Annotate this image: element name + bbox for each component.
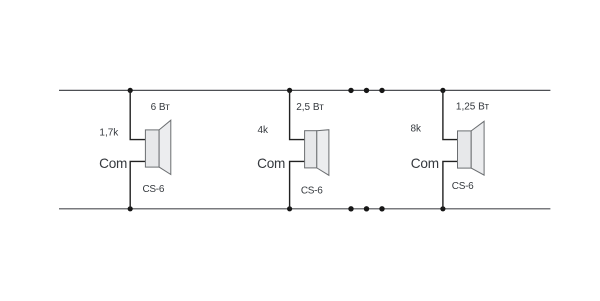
node ellipsis dots top rail bbox=[348, 88, 384, 93]
speaker LS3 body bbox=[458, 131, 472, 168]
node junction top 1 bbox=[128, 88, 133, 93]
svg-text:6 Вт: 6 Вт bbox=[151, 102, 171, 113]
svg-text:Com: Com bbox=[411, 156, 439, 171]
svg-text:Com: Com bbox=[99, 156, 127, 171]
wire branch 3 lower bbox=[443, 161, 458, 208]
wire branch 3 upper bbox=[443, 90, 458, 139]
svg-text:CS-6: CS-6 bbox=[301, 186, 323, 197]
wire branch 2 upper bbox=[290, 90, 305, 139]
svg-text:1,25 Вт: 1,25 Вт bbox=[456, 101, 490, 112]
speaker LS2 cone bbox=[317, 130, 329, 176]
node junction top 2 bbox=[287, 88, 292, 93]
svg-text:1,7k: 1,7k bbox=[99, 128, 119, 139]
node junction top 3 bbox=[440, 88, 445, 93]
node junction bottom 1 bbox=[128, 206, 133, 211]
wire branch 1 upper bbox=[130, 90, 145, 139]
node ellipsis dots bottom rail bbox=[348, 206, 384, 211]
speaker LS2 body bbox=[305, 131, 317, 168]
speaker LS1 cone bbox=[159, 120, 171, 174]
svg-text:8k: 8k bbox=[410, 124, 422, 135]
svg-text:CS-6: CS-6 bbox=[452, 181, 474, 192]
svg-text:Com: Com bbox=[257, 156, 285, 171]
speaker LS3 cone bbox=[471, 121, 484, 175]
wire branch 2 lower bbox=[290, 161, 305, 208]
wire branch 1 lower bbox=[130, 161, 145, 208]
node junction bottom 3 bbox=[440, 206, 445, 211]
wire top rail bbox=[59, 89, 550, 91]
svg-text:CS-6: CS-6 bbox=[143, 184, 165, 195]
svg-text:4k: 4k bbox=[257, 125, 269, 136]
svg-text:2,5 Вт: 2,5 Вт bbox=[296, 102, 324, 113]
speaker LS1 body bbox=[145, 130, 159, 167]
wire bottom rail bbox=[59, 208, 550, 210]
node junction bottom 2 bbox=[287, 206, 292, 211]
